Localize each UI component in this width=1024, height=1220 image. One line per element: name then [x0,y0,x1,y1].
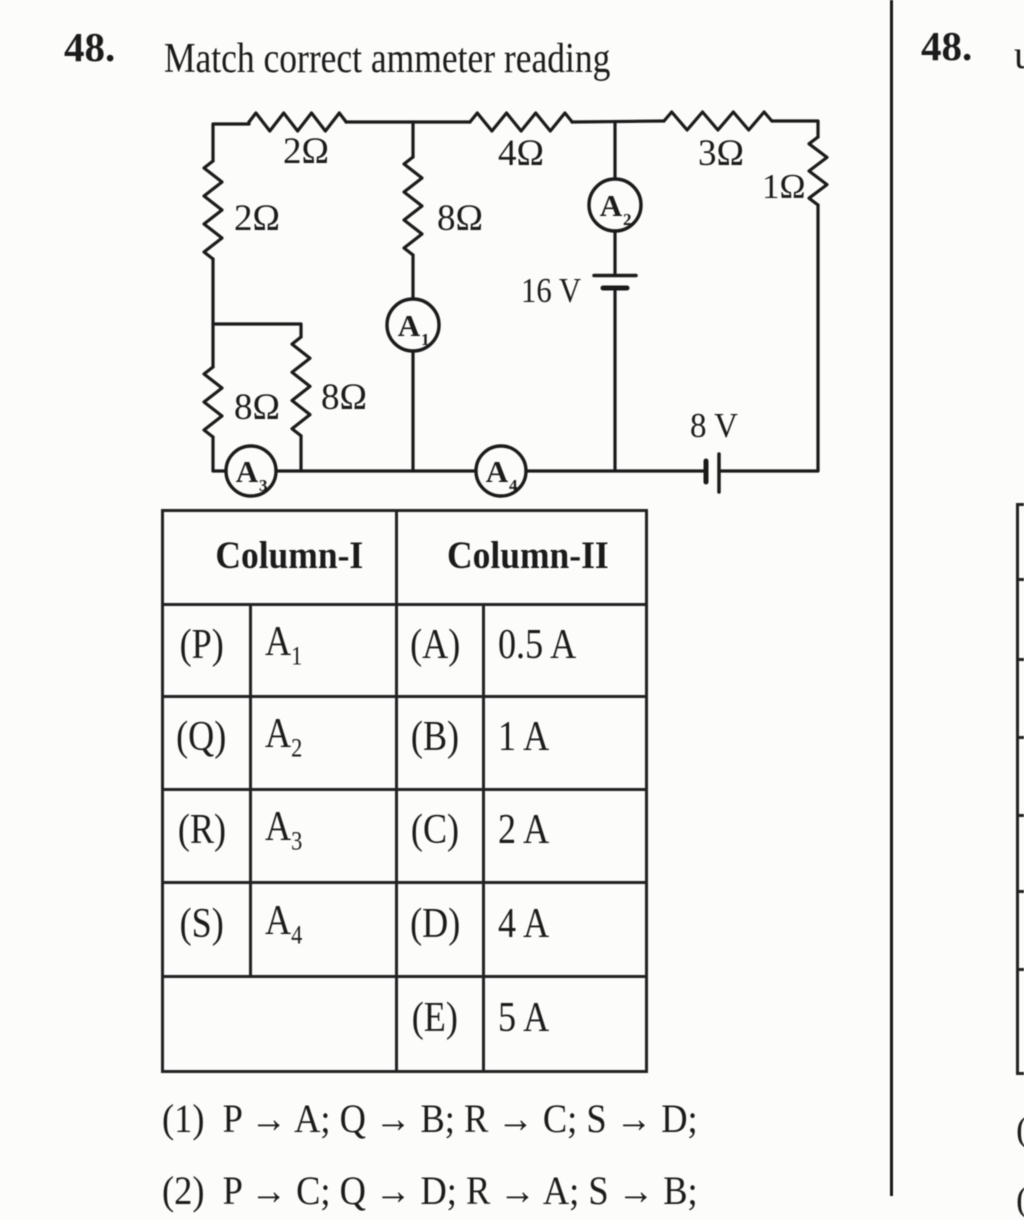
wire right vertical down [721,205,818,471]
svg-text:4Ω: 4Ω [498,133,544,174]
svg-text:A: A [486,454,509,489]
svg-text:A: A [600,188,623,223]
question number 48 [64,23,115,71]
svg-text:3: 3 [259,476,268,495]
option (2) partially cut [162,1167,698,1214]
resistor R8 8ohm vertical inner [292,337,310,436]
wire inner branch horizontal [213,324,301,337]
svg-text:2Ω: 2Ω [234,198,280,239]
option (1) [162,1095,698,1142]
resistor R4 2ohm vertical left branch [204,161,222,259]
resistor R3 3ohm horizontal top-right [664,112,772,130]
row blank / E [163,977,647,1072]
right column partial table left edge [1016,503,1019,1075]
resistor R2 4ohm horizontal top-middle [470,113,572,131]
svg-text:8 V: 8 V [690,406,738,445]
wire bottom between A4 and battery B2 [526,469,703,472]
svg-text:8Ω: 8Ω [234,387,280,428]
match table [161,509,648,1073]
right table tick 2 [1016,578,1024,581]
right table tick 5 [1016,814,1024,817]
wire R5 to ammeter A1 [411,255,414,299]
ammeter A3 [226,446,276,496]
right column partial parenthesis 1 [1016,1108,1024,1150]
ammeter A2 [589,179,641,231]
row Q / B [163,697,647,790]
wire top segment between R2 and R3 [572,121,664,122]
wire bottom between A3 and A4 [276,469,476,472]
resistor R6 1ohm vertical right branch [809,137,827,205]
resistor R1 2ohm horizontal top-left [249,113,346,131]
row P / A [163,605,647,697]
wire top middle segment [346,120,470,123]
svg-text:8Ω: 8Ω [437,198,483,239]
battery B2 8V long plate [717,454,721,492]
svg-text:3Ω: 3Ω [698,133,744,174]
title: Match correct ammeter reading [164,35,610,83]
right table tick 4 [1016,736,1024,739]
wire A1 to bottom [411,351,414,471]
wire battery B1 to bottom [613,291,616,471]
right column question number 48 [921,22,972,70]
row R / C [163,790,647,883]
right table bottom tick [1016,1072,1024,1075]
battery B1 16V short plate [603,286,627,291]
battery B1 16V long plate [594,274,636,278]
right column partial parenthesis 2 [1016,1178,1024,1220]
svg-text:8Ω: 8Ω [321,377,367,418]
wire top-left segment [213,122,249,161]
svg-text:1Ω: 1Ω [762,167,806,206]
wire top-right corner [772,121,818,137]
right table tick 6 [1016,890,1024,893]
ammeter A4 [476,446,526,496]
ammeter A1 [387,299,439,351]
wire R8 to bottom wire [299,436,302,471]
svg-text:2: 2 [623,210,632,229]
wire R7 to bottom corner [213,437,226,471]
svg-text:2Ω: 2Ω [283,131,329,172]
right table tick 7 [1016,968,1024,971]
svg-text:A: A [398,308,421,343]
resistor R7 8ohm vertical lower-left [204,367,222,437]
wire left vertical middle [211,259,214,367]
right table tick 3 [1016,658,1024,661]
svg-text:16 V: 16 V [521,271,581,310]
wire A2 to battery B1 [613,231,616,273]
wire middle branch from top to A2 [613,122,616,179]
svg-text:1: 1 [421,330,430,349]
svg-text:A: A [236,454,259,489]
svg-text:4: 4 [509,476,518,495]
column divider rule [890,0,893,1196]
header row [163,511,647,605]
resistor R5 8ohm vertical middle branch [404,157,422,255]
right table tick 1 [1016,503,1024,506]
battery B2 8V short plate [704,461,709,482]
right column partial word [1014,31,1024,78]
row S / D [163,883,647,977]
wire from top to R5 [411,122,414,157]
